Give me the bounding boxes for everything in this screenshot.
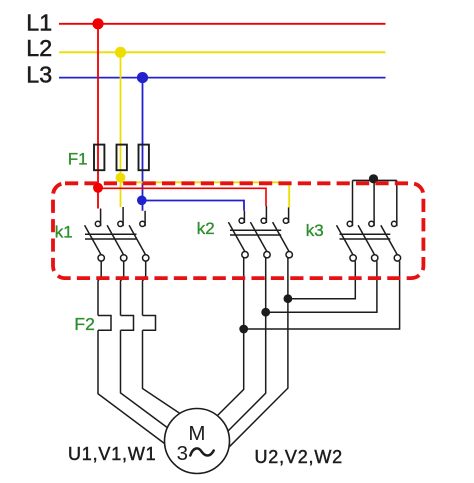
node V2 junction [261, 308, 270, 317]
wire F2 to motor U1 [98, 330, 165, 443]
k2 pole2 stem [265, 206, 267, 223]
svg-text:F2: F2 [74, 314, 94, 334]
k2 pole2 blade [250, 222, 267, 252]
overload F2 element 3 [143, 316, 156, 331]
svg-text:L3: L3 [26, 61, 52, 87]
k1 pole2 blade [107, 225, 124, 255]
svg-text:k1: k1 [55, 222, 73, 241]
fuse F1 element 2 [117, 145, 127, 171]
wire k3 pole3 output [244, 261, 400, 329]
k3 pole1 stem [352, 180, 354, 226]
k3 pole1 terminal [350, 255, 356, 261]
motor sine wave [190, 448, 213, 455]
wire L1 rail [59, 23, 386, 25]
wire L3 rail [59, 77, 386, 79]
wire k1 pole3 output [143, 261, 146, 315]
node W2 junction [239, 325, 248, 334]
overload F2 element 2 [121, 316, 134, 331]
wire F2 to motor U3 [143, 330, 181, 413]
k1 pole3 terminal [143, 255, 149, 261]
svg-text:U2,V2,W2: U2,V2,W2 [255, 447, 343, 467]
svg-text:L2: L2 [26, 35, 52, 61]
k3 pole3 terminal [394, 255, 400, 261]
k2 pole3 blade [273, 222, 290, 252]
motor M circle [165, 409, 230, 474]
k2 pole3 hook [283, 218, 288, 223]
wire k3 star bus [353, 179, 397, 181]
wire k1 pole1 output [98, 261, 101, 315]
wire k1 pole2 output [121, 261, 124, 315]
node L1 junction [92, 18, 103, 29]
svg-text:3: 3 [177, 442, 188, 465]
k3 pole2 terminal [372, 255, 378, 261]
k3 pole2 stem [373, 180, 375, 226]
k2 pole2 hook [261, 218, 266, 223]
node red branch junction [93, 183, 103, 193]
k1 linkage [85, 233, 137, 235]
svg-text:L1: L1 [26, 10, 52, 36]
svg-text:F1: F1 [68, 150, 88, 169]
wire k2 pole3 output [229, 258, 288, 447]
k1 pole1 terminal [98, 255, 104, 261]
k3 pole3 stem [396, 180, 398, 226]
svg-text:k3: k3 [306, 221, 324, 240]
k3 pole2 blade [358, 225, 375, 255]
k1 pole1 stem [100, 209, 102, 227]
k1 pole3 stem [144, 211, 146, 226]
k3 pole3 blade [381, 225, 398, 255]
wire yellow branch to k2 pole3 [121, 182, 290, 207]
fuse F1 element 3 [139, 145, 149, 171]
k1 pole3 hook [140, 221, 145, 226]
wire L2 rail [59, 51, 386, 53]
k2 pole2 terminal [264, 252, 270, 258]
node yellow branch junction [116, 173, 126, 183]
wire L3 drop [142, 78, 144, 211]
k3 linkage [340, 233, 391, 235]
k2 pole1 stem [243, 211, 245, 223]
k2 pole3 terminal [286, 252, 292, 258]
node L2 junction [115, 47, 126, 58]
k3 pole1 hook [347, 221, 352, 226]
svg-text:k2: k2 [197, 219, 215, 238]
wire k3 pole1 output [288, 261, 355, 299]
wire k3 pole2 output [266, 261, 377, 312]
svg-text:U1,V1,W1: U1,V1,W1 [68, 444, 156, 464]
k1 pole1 hook [95, 221, 100, 226]
contactor group enclosure [53, 183, 423, 278]
k1 pole2 terminal [121, 255, 127, 261]
k2 pole1 hook [239, 218, 244, 223]
node star point [369, 174, 378, 183]
wire k2 pole2 output [228, 258, 266, 431]
wire L1 drop [97, 24, 99, 209]
k2 pole1 terminal [242, 252, 248, 258]
k1 pole2 hook [118, 221, 123, 226]
svg-text:M: M [188, 422, 205, 445]
wire blue branch to k2 pole1 [143, 201, 245, 211]
node blue branch junction [137, 196, 147, 206]
fuse F1 element 1 [94, 145, 104, 171]
k1 pole2 stem [122, 207, 124, 226]
k3 pole3 hook [392, 221, 397, 226]
node U2 junction [284, 294, 293, 303]
k2 pole1 blade [228, 222, 245, 252]
k1 pole1 blade [85, 225, 102, 255]
wire L2 drop [120, 52, 122, 207]
overload F2 element 1 [98, 316, 111, 331]
wire F2 to motor U2 [121, 330, 169, 428]
node L3 junction [137, 72, 148, 83]
k2 linkage [230, 229, 281, 231]
k1 pole3 blade [129, 225, 146, 255]
k3 pole2 hook [369, 221, 374, 226]
wire red branch to k2 pole2 [98, 188, 266, 206]
k2 pole3 stem [288, 207, 290, 223]
k3 pole1 blade [337, 225, 354, 255]
wire k2 pole1 output [218, 258, 244, 416]
